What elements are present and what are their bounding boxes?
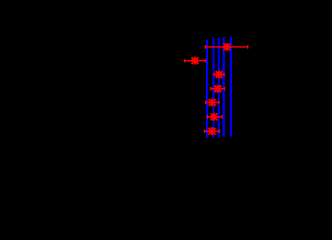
data point 2: error bar — [185, 59, 206, 63]
blue vertical line 4 — [223, 37, 225, 137]
data point 6: error bar — [207, 115, 222, 119]
data point 3: star marker — [215, 71, 223, 79]
data point 1: star marker — [223, 43, 231, 51]
blue vertical line 1 — [206, 40, 208, 138]
data point 5: error bar — [206, 101, 219, 105]
data point 4: star marker — [214, 85, 222, 93]
blue vertical line 3 — [218, 38, 220, 138]
data point 2: star marker — [191, 57, 199, 65]
data point 1: error bar — [205, 45, 247, 49]
blue vertical line 2 — [213, 38, 215, 138]
data point 3: error bar — [214, 73, 224, 77]
data point 7: error bar — [205, 129, 220, 133]
blue vertical line 5 — [230, 37, 232, 137]
data point 5: star marker — [208, 98, 216, 106]
data point 7: star marker — [208, 127, 216, 135]
data point 6: star marker — [210, 113, 218, 121]
data point 4: error bar — [211, 87, 225, 91]
